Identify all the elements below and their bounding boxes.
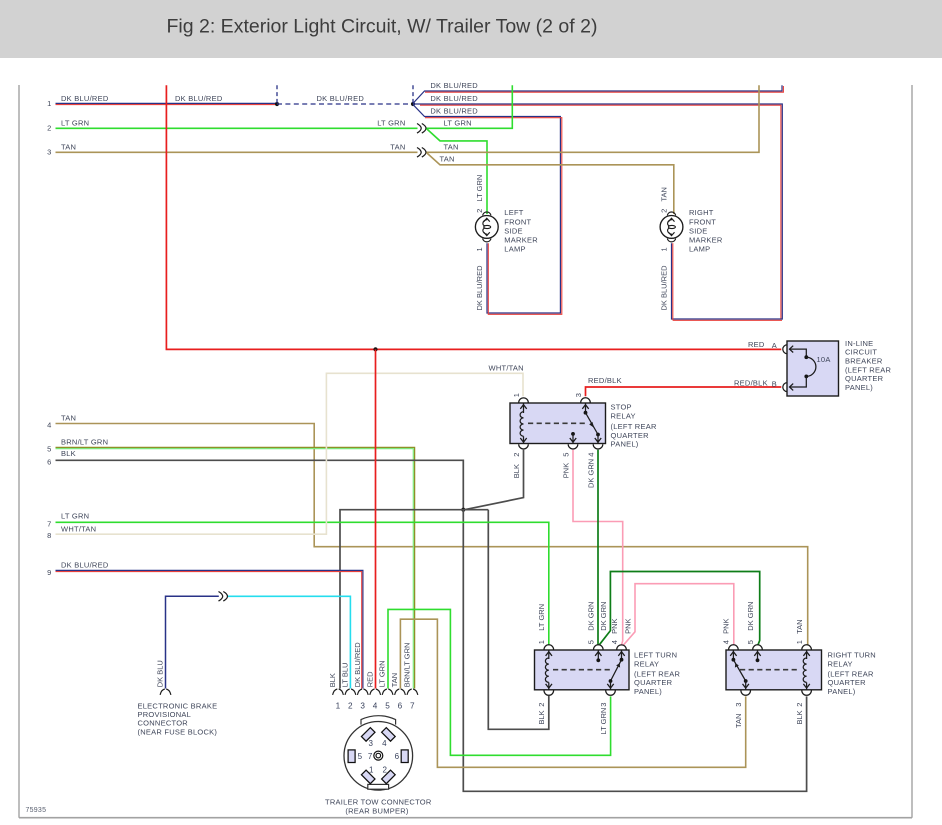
svg-text:2: 2 xyxy=(660,209,669,213)
svg-text:(LEFT REAR: (LEFT REAR xyxy=(845,365,891,374)
svg-text:LT GRN: LT GRN xyxy=(61,512,89,521)
right turn relay pin5 stub xyxy=(757,650,759,660)
trailer terminal 4 xyxy=(382,728,396,742)
trailer terminal 3 xyxy=(361,728,375,742)
svg-text:3: 3 xyxy=(734,703,743,707)
trailer 7-pin terminals xyxy=(333,689,338,695)
svg-text:DK GRN: DK GRN xyxy=(587,602,596,631)
left turn relay dashed link xyxy=(553,669,612,671)
svg-text:DK BLU/RED: DK BLU/RED xyxy=(61,94,109,103)
svg-text:LT GRN: LT GRN xyxy=(444,118,472,127)
svg-text:LEFT: LEFT xyxy=(504,208,524,217)
svg-text:3: 3 xyxy=(599,703,608,707)
svg-text:DK BLU/RED: DK BLU/RED xyxy=(175,94,223,103)
svg-text:MARKER: MARKER xyxy=(504,236,538,245)
svg-text:LT GRN: LT GRN xyxy=(378,660,387,687)
svg-text:PNK: PNK xyxy=(624,618,633,633)
svg-text:BLK: BLK xyxy=(61,449,76,458)
svg-text:7: 7 xyxy=(410,702,415,711)
svg-text:3: 3 xyxy=(368,739,373,748)
left turn relay coil pin xyxy=(548,650,550,659)
svg-text:5: 5 xyxy=(587,640,596,644)
right turn relay coil pin xyxy=(806,650,808,659)
svg-text:5: 5 xyxy=(358,752,363,761)
svg-text:TAN: TAN xyxy=(660,187,669,201)
title bar xyxy=(0,0,942,58)
svg-text:PANEL): PANEL) xyxy=(611,439,639,448)
wire RED down to trailer pin4 xyxy=(375,349,377,688)
svg-text:PANEL): PANEL) xyxy=(845,383,873,392)
svg-text:4: 4 xyxy=(47,421,51,430)
svg-text:3: 3 xyxy=(47,148,51,157)
svg-text:RED: RED xyxy=(365,671,374,687)
svg-text:2: 2 xyxy=(382,765,387,774)
wire TAN right turn relay pin3 to trailer pin6 xyxy=(400,619,745,767)
right turn relay box xyxy=(726,650,822,690)
svg-text:DK BLU/RED: DK BLU/RED xyxy=(353,642,362,688)
svg-text:DK BLU/RED: DK BLU/RED xyxy=(660,265,669,311)
trailer tow connector body xyxy=(361,716,396,725)
svg-text:PANEL): PANEL) xyxy=(634,687,662,696)
wire RED main feed xyxy=(166,85,781,349)
wire LT GRN after connector with up stub xyxy=(427,85,513,128)
svg-text:(NEAR FUSE BLOCK): (NEAR FUSE BLOCK) xyxy=(138,727,218,736)
svg-text:10A: 10A xyxy=(817,355,831,364)
wire net 7 LT GRN row7 to left turn relay pin1 xyxy=(56,522,549,645)
svg-text:MARKER: MARKER xyxy=(689,236,723,245)
svg-text:LT BLU: LT BLU xyxy=(341,663,350,688)
svg-text:BLK: BLK xyxy=(328,673,337,687)
wire dashed stub up at x=277 xyxy=(276,85,278,103)
in-line circuit breaker box xyxy=(787,341,839,396)
wire LT BLU to trailer pin2 xyxy=(228,596,350,688)
svg-text:Fig 2: Exterior Light Circuit,: Fig 2: Exterior Light Circuit, W/ Traile… xyxy=(167,16,598,38)
svg-text:BLK: BLK xyxy=(512,464,521,478)
svg-text:5: 5 xyxy=(561,453,570,457)
left turn relay box xyxy=(535,650,630,690)
wire BLK to left turn relay pin2 xyxy=(488,510,549,730)
right turn relay connector arcs xyxy=(802,645,812,650)
svg-text:2: 2 xyxy=(512,453,521,457)
svg-text:6: 6 xyxy=(398,702,403,711)
svg-text:PNK: PNK xyxy=(610,618,619,633)
svg-text:1: 1 xyxy=(537,640,546,644)
svg-text:QUARTER: QUARTER xyxy=(845,374,884,383)
svg-text:CIRCUIT: CIRCUIT xyxy=(845,348,877,357)
svg-text:WHT/TAN: WHT/TAN xyxy=(61,524,96,533)
svg-text:FRONT: FRONT xyxy=(689,217,716,226)
wire DK GRN branch to right turn relay pin5 xyxy=(599,572,759,646)
wire net 4 TAN row4 to right turn relay pin1 xyxy=(56,424,808,646)
svg-text:SIDE: SIDE xyxy=(504,226,523,235)
svg-text:4: 4 xyxy=(382,739,387,748)
svg-text:RELAY: RELAY xyxy=(611,411,636,420)
wire LT GRN branch to left lamp xyxy=(427,129,488,214)
trailer terminal 1 xyxy=(361,770,375,784)
left turn relay pin5 stub xyxy=(597,650,599,660)
frame borders xyxy=(18,85,20,818)
svg-text:5: 5 xyxy=(385,702,390,711)
svg-text:DK BLU/RED: DK BLU/RED xyxy=(430,94,478,103)
wire net 9 DK BLU/RED row9 to trailer pin3 xyxy=(56,570,363,688)
node splice 2 (413,104) xyxy=(411,102,415,106)
svg-text:2: 2 xyxy=(537,703,546,707)
svg-text:5: 5 xyxy=(746,640,755,644)
wire net 3 TAN row xyxy=(56,151,418,153)
stop relay switch pin3-pin4 xyxy=(585,403,587,413)
svg-text:BRN/LT GRN: BRN/LT GRN xyxy=(61,438,108,447)
svg-text:1: 1 xyxy=(336,702,341,711)
svg-text:FRONT: FRONT xyxy=(504,217,531,226)
wire PNK branch to right turn relay pin4 xyxy=(623,584,734,646)
wire branch B DK BLU/RED middle to right lamp loop xyxy=(413,104,782,319)
trailer terminal 5 xyxy=(348,750,355,763)
svg-text:LT GRN: LT GRN xyxy=(475,175,484,202)
node splice 1 (277,104) xyxy=(275,102,279,106)
wire net 8 WHT/TAN row8 to stop relay pin1 xyxy=(56,373,524,534)
lamp RIGHT FRONT side marker xyxy=(660,216,683,239)
left turn relay connector arcs xyxy=(544,645,554,650)
wire LT GRN left turn relay pin3 to trailer pin5 xyxy=(388,609,611,755)
wire dashed stub up at x=413 xyxy=(412,85,414,103)
svg-text:TAN: TAN xyxy=(440,155,455,164)
svg-text:BREAKER: BREAKER xyxy=(845,357,883,366)
svg-text:LAMP: LAMP xyxy=(504,245,525,254)
svg-text:1: 1 xyxy=(475,247,484,251)
node RED junction xyxy=(373,347,377,351)
wire net 2 LT GRN row xyxy=(56,127,418,129)
svg-text:1: 1 xyxy=(369,765,374,774)
svg-text:RED: RED xyxy=(748,340,765,349)
svg-text:1: 1 xyxy=(512,393,521,397)
svg-text:RELAY: RELAY xyxy=(828,659,853,668)
svg-text:LT GRN: LT GRN xyxy=(61,118,89,127)
svg-text:BLK: BLK xyxy=(537,710,546,724)
svg-text:3: 3 xyxy=(574,393,583,397)
svg-text:75935: 75935 xyxy=(26,807,47,814)
svg-text:6: 6 xyxy=(395,752,400,761)
svg-text:LT GRN: LT GRN xyxy=(537,604,546,631)
wire dashed DK BLU/RED 277-413 xyxy=(277,103,413,105)
stop relay pin5 stub xyxy=(571,432,575,436)
wire DK GRN stop relay pin4 to left turn relay pin5 xyxy=(597,450,599,646)
right turn relay switch xyxy=(732,650,734,660)
svg-text:1: 1 xyxy=(795,640,804,644)
svg-text:4: 4 xyxy=(373,702,378,711)
wire BLK from stop relay pin2 xyxy=(465,450,524,510)
svg-text:DK BLU: DK BLU xyxy=(156,660,165,687)
wire BLK horizontal to trailer pin1 xyxy=(340,510,488,689)
svg-text:BRN/LT GRN: BRN/LT GRN xyxy=(403,643,412,688)
svg-text:7: 7 xyxy=(47,519,51,528)
svg-text:TAN: TAN xyxy=(390,142,405,151)
svg-text:TAN: TAN xyxy=(61,414,76,423)
right turn relay dashed link xyxy=(740,669,800,671)
breaker internal symbol xyxy=(790,346,794,353)
svg-text:TAN: TAN xyxy=(795,619,804,633)
breaker pin A arc xyxy=(783,345,788,354)
svg-text:LT GRN: LT GRN xyxy=(599,708,608,735)
wire BLK to right turn relay pin2 xyxy=(463,510,806,792)
svg-text:1: 1 xyxy=(47,99,51,108)
in-line connector brake xyxy=(219,592,223,602)
svg-text:2: 2 xyxy=(348,702,353,711)
svg-text:RIGHT: RIGHT xyxy=(689,208,714,217)
node BLK junction xyxy=(461,508,465,512)
svg-text:DK GRN: DK GRN xyxy=(599,602,608,631)
svg-text:DK BLU/RED: DK BLU/RED xyxy=(61,560,109,569)
svg-text:DK BLU/RED: DK BLU/RED xyxy=(430,81,478,90)
svg-text:9: 9 xyxy=(47,568,51,577)
svg-text:TAN: TAN xyxy=(734,714,743,728)
svg-text:RED/BLK: RED/BLK xyxy=(588,376,622,385)
in-line connector row3 xyxy=(417,148,421,158)
svg-text:LT GRN: LT GRN xyxy=(377,118,405,127)
svg-text:(REAR BUMPER): (REAR BUMPER) xyxy=(345,807,409,816)
wire branch C DK BLU/RED lower to left lamp loop xyxy=(413,105,560,313)
svg-text:5: 5 xyxy=(47,444,51,453)
svg-text:8: 8 xyxy=(47,531,51,540)
lamp LEFT FRONT side marker xyxy=(475,216,498,239)
svg-text:DK BLU/RED: DK BLU/RED xyxy=(430,107,478,116)
svg-text:WHT/TAN: WHT/TAN xyxy=(489,363,524,372)
svg-text:2: 2 xyxy=(475,209,484,213)
svg-text:A: A xyxy=(772,341,777,350)
trailer terminal 7 center xyxy=(374,751,383,760)
svg-text:RED/BLK: RED/BLK xyxy=(734,379,768,388)
svg-text:PANEL): PANEL) xyxy=(828,687,856,696)
svg-text:3: 3 xyxy=(360,702,365,711)
svg-text:LAMP: LAMP xyxy=(689,245,710,254)
wire DK BLU electronic brake xyxy=(166,596,219,688)
stop relay dashed link xyxy=(528,422,588,424)
svg-text:RELAY: RELAY xyxy=(634,659,659,668)
wire PNK stop relay pin5 to left turn relay pin4 xyxy=(573,450,623,646)
wire net 6 BLK row6 xyxy=(56,460,464,509)
svg-text:SIDE: SIDE xyxy=(689,226,708,235)
svg-text:DK BLU/RED: DK BLU/RED xyxy=(475,265,484,311)
trailer terminal 6 xyxy=(401,750,408,763)
svg-text:BLK: BLK xyxy=(795,710,804,724)
svg-text:4: 4 xyxy=(722,640,731,644)
stop relay pin1 arrow+coil xyxy=(523,403,525,413)
svg-text:2: 2 xyxy=(795,703,804,707)
wire TAN branch to right lamp xyxy=(427,153,674,214)
svg-text:DK BLU/RED: DK BLU/RED xyxy=(317,94,365,103)
svg-text:7: 7 xyxy=(368,752,373,761)
svg-text:B: B xyxy=(772,379,777,388)
svg-text:4: 4 xyxy=(586,453,595,457)
svg-text:DK GRN: DK GRN xyxy=(746,602,755,631)
stop relay connector arcs xyxy=(519,398,529,403)
wire branch A DK BLU/RED upper xyxy=(413,85,782,103)
svg-text:6: 6 xyxy=(47,457,51,466)
svg-text:TRAILER TOW CONNECTOR: TRAILER TOW CONNECTOR xyxy=(325,797,432,806)
wire RED/BLK stop relay pin3 to breaker B xyxy=(586,387,782,396)
trailer terminal 2 xyxy=(382,770,396,784)
svg-text:4: 4 xyxy=(610,640,619,644)
breaker pin B arc xyxy=(783,383,788,392)
svg-text:PNK: PNK xyxy=(722,618,731,633)
svg-text:TAN: TAN xyxy=(390,673,399,687)
svg-text:1: 1 xyxy=(660,247,669,251)
svg-text:DK GRN: DK GRN xyxy=(586,459,595,488)
wire net 5 BRN/LT GRN row5 to trailer pin7 xyxy=(56,447,415,688)
svg-text:PNK: PNK xyxy=(561,463,570,478)
wire net 1 DK BLU/RED - solid segment xyxy=(56,102,278,104)
left turn relay switch xyxy=(621,650,623,660)
svg-text:IN-LINE: IN-LINE xyxy=(845,339,873,348)
wire TAN after connector with up stub xyxy=(427,85,760,152)
in-line connector row2 xyxy=(417,124,421,134)
svg-text:2: 2 xyxy=(47,124,51,133)
stop relay U1 box xyxy=(510,403,606,444)
svg-text:TAN: TAN xyxy=(61,142,76,151)
svg-text:TAN: TAN xyxy=(444,142,459,151)
electronic brake connector terminal xyxy=(160,689,165,695)
